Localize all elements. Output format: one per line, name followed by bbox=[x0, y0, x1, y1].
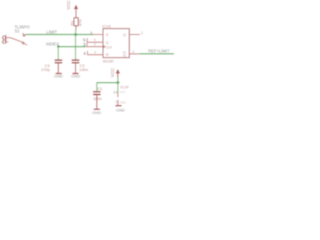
svg-text:4013D: 4013D bbox=[103, 60, 114, 64]
capacitor C1 bbox=[93, 91, 101, 93]
wire VCC node down bbox=[117, 83, 119, 93]
svg-text:4: 4 bbox=[94, 51, 96, 55]
connector X1 pad 2 bbox=[3, 40, 5, 43]
svg-text:S1: S1 bbox=[15, 29, 21, 34]
capacitor C2 bbox=[72, 59, 80, 61]
svg-text:2: 2 bbox=[132, 50, 134, 54]
junction INDEX/C3 bbox=[57, 45, 59, 47]
switch S1 upper contact bbox=[23, 34, 25, 36]
pin 4 R stub bbox=[87, 54, 103, 56]
wire C3 to GND bbox=[57, 64, 59, 74]
svg-text:R: R bbox=[106, 52, 109, 57]
wire net INDEX bbox=[58, 46, 86, 48]
IC1P power pin 14 bbox=[117, 93, 119, 97]
wire VCC pin to junction bbox=[117, 77, 119, 82]
svg-text:GND: GND bbox=[54, 73, 63, 78]
svg-text:CLK: CLK bbox=[106, 46, 113, 50]
wire net REF+LIMIT bbox=[139, 53, 174, 55]
svg-text:5: 5 bbox=[94, 38, 96, 42]
capacitor C3 bbox=[55, 59, 63, 61]
junction VCC node bbox=[117, 81, 120, 84]
svg-text:470: 470 bbox=[78, 19, 83, 26]
svg-text:C1: C1 bbox=[97, 86, 103, 91]
svg-text:6: 6 bbox=[90, 31, 92, 35]
svg-text:VCC: VCC bbox=[110, 68, 115, 77]
ground under IC1P bbox=[115, 105, 121, 107]
op IC1A box bbox=[103, 29, 129, 58]
svg-text:REF+LIMIT: REF+LIMIT bbox=[148, 48, 170, 53]
pin 5 D stub bbox=[87, 41, 103, 43]
ground under C1 bbox=[94, 108, 100, 110]
svg-text:GND: GND bbox=[120, 100, 126, 104]
svg-text:GND: GND bbox=[71, 73, 80, 78]
wire R1 pin to junction bbox=[75, 29, 77, 34]
wire R1 to LIMIT bbox=[75, 26, 77, 30]
pin 3 CLK stub bbox=[86, 46, 103, 48]
svg-text:Q: Q bbox=[123, 32, 126, 37]
svg-text:VCC: VCC bbox=[120, 90, 126, 94]
VCC arrow bottom bbox=[116, 69, 120, 74]
svg-text:100n: 100n bbox=[93, 96, 102, 101]
svg-text:3: 3 bbox=[83, 42, 86, 47]
connector pin 2 stub bbox=[5, 41, 8, 43]
ground under C3 bbox=[56, 73, 62, 75]
svg-text:D: D bbox=[106, 40, 109, 45]
svg-text:100n: 100n bbox=[79, 67, 88, 72]
svg-text:3: 3 bbox=[94, 43, 96, 47]
svg-text:INDEX: INDEX bbox=[46, 42, 59, 47]
IC1P power pin 7 bbox=[117, 100, 119, 106]
wire INDEX to C3 bbox=[57, 47, 59, 60]
junction LIMIT/R1 bbox=[74, 33, 77, 36]
resistor R1 bbox=[74, 18, 78, 26]
switch actuator tick bbox=[23, 32, 24, 35]
clock wedge bbox=[103, 45, 105, 48]
svg-text:4: 4 bbox=[83, 51, 86, 56]
wire C2 to GND bbox=[75, 64, 77, 74]
svg-text:S: S bbox=[106, 32, 109, 37]
switch S1 lower contact bbox=[22, 42, 24, 44]
svg-text:VCC: VCC bbox=[66, 0, 71, 9]
svg-text:14: 14 bbox=[113, 90, 117, 94]
pin 2 Qbar stub bbox=[129, 53, 139, 55]
svg-text:IC1P: IC1P bbox=[120, 86, 129, 90]
wire switch common stub bbox=[6, 37, 11, 39]
svg-text:270p: 270p bbox=[41, 67, 51, 72]
switch S1 lever bbox=[11, 38, 22, 42]
wire net LIMIT bbox=[26, 34, 93, 36]
svg-text:GND: GND bbox=[116, 107, 125, 112]
svg-text:Q: Q bbox=[123, 52, 126, 57]
pin 6 S stub bbox=[93, 34, 103, 36]
svg-text:IC1A: IC1A bbox=[102, 24, 111, 28]
ground under C2 bbox=[72, 73, 78, 75]
switch S1 lower throw stub bbox=[24, 44, 27, 45]
svg-text:GND: GND bbox=[92, 110, 101, 115]
svg-text:R1: R1 bbox=[69, 20, 74, 26]
wire VCC node to C1 corner bbox=[96, 82, 98, 91]
connector X1 pad 1 bbox=[3, 36, 5, 39]
svg-text:7: 7 bbox=[115, 101, 117, 105]
pin 1 Q stub bbox=[129, 34, 140, 36]
connector X1 body line bbox=[5, 35, 7, 44]
VCC arrow top bbox=[74, 5, 78, 10]
wire C1 to GND bbox=[96, 95, 98, 109]
svg-text:1: 1 bbox=[141, 31, 143, 35]
wire VCC node to C1 bbox=[97, 82, 118, 84]
switch S1 upper throw stub bbox=[25, 34, 26, 37]
wire LIMIT to C2 bbox=[75, 35, 77, 60]
svg-text:LIMIT: LIMIT bbox=[46, 29, 57, 34]
